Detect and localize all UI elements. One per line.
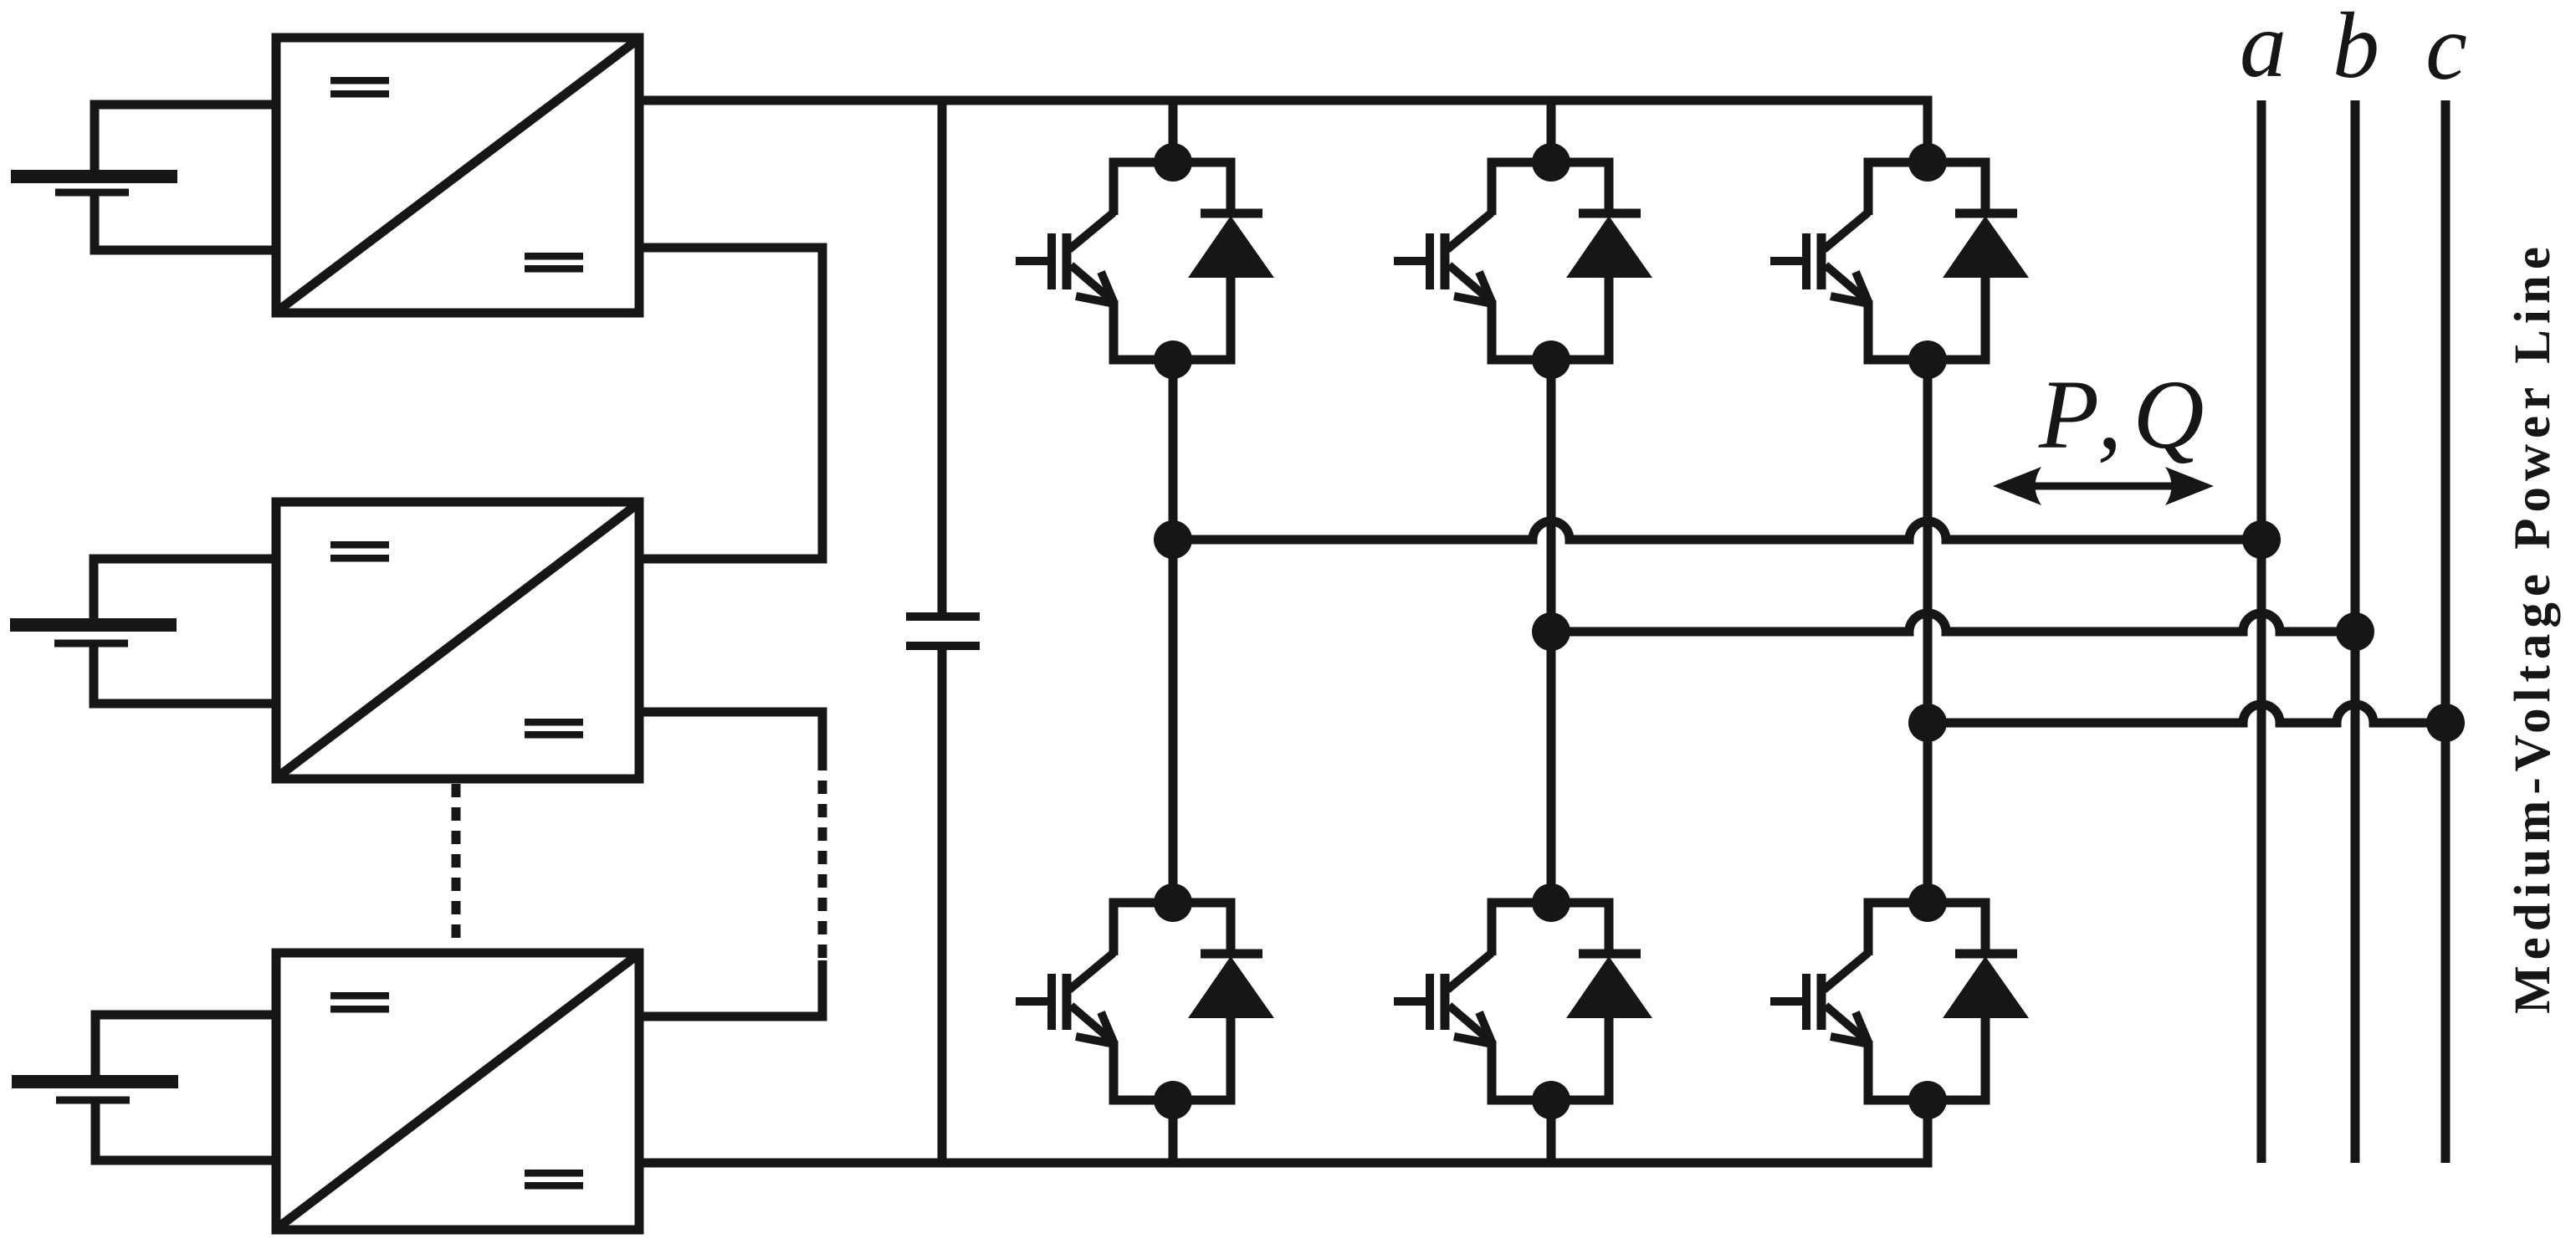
wire dashed continuation to U3 upper output — [639, 960, 822, 1021]
transistor Q5 (IGBT, leg 3 top) — [1770, 162, 1869, 360]
node phase line a junction — [2242, 520, 2281, 559]
label phase a — [2240, 0, 2287, 97]
wire leg 1 midpoint vertical — [1169, 360, 1178, 903]
diode D3 (anti-parallel, leg 2 top) — [1566, 162, 1652, 360]
wire U1 lower output to U2 upper output — [639, 243, 822, 564]
node leg 3 midpoint — [1908, 704, 1947, 742]
wire U2 lower output (to dashed continuation) — [639, 708, 822, 758]
wire phase b output (leg 2 midpoint to line b, hops over leg 3 and line a) — [1551, 613, 2355, 632]
U3 DC symbol (=) input side — [330, 992, 389, 1013]
dashed wire (repeated modules) between U2 and U3 — [818, 757, 827, 962]
wire cell top rail (leg 1 bottom cell) — [1109, 898, 1236, 908]
node leg 3 top cell upper — [1908, 143, 1947, 182]
svg-text:a: a — [2240, 0, 2287, 97]
node leg 3 bottom cell upper — [1908, 883, 1947, 922]
node leg 1 bottom cell lower — [1154, 1081, 1192, 1119]
node leg 2 top cell upper — [1532, 143, 1570, 182]
wire leg 1 bottom cell to DC- bus — [1169, 1100, 1178, 1163]
diode D5 (anti-parallel, leg 3 top) — [1943, 162, 2029, 360]
node leg 3 bottom cell lower — [1908, 1081, 1947, 1119]
node leg 3 top cell lower — [1908, 340, 1947, 379]
node leg 2 bottom cell upper — [1532, 883, 1570, 922]
node phase line c junction — [2426, 704, 2465, 742]
transistor Q6 (IGBT, leg 3 bottom) — [1770, 903, 1869, 1100]
wire cell top rail (leg 2 bottom cell) — [1488, 898, 1614, 908]
wire leg 3 bottom cell to DC- bus — [1923, 1100, 1933, 1163]
dashed line (repeated modules) between U2 and U3 boxes — [452, 784, 461, 945]
diode D2 (anti-parallel, leg 1 bottom) — [1188, 903, 1274, 1100]
dc-dc converter U1 (box with diagonal) — [276, 38, 639, 313]
node leg 2 midpoint — [1532, 612, 1570, 651]
transistor Q1 (IGBT, leg 1 top) — [1016, 162, 1114, 360]
svg-text:P,Q: P,Q — [2038, 360, 2215, 469]
node leg 1 top cell upper — [1154, 143, 1192, 182]
wire cell bottom rail (leg 2 top cell) — [1488, 356, 1614, 365]
U2 DC symbol (=) output side — [525, 719, 583, 739]
label Medium-Voltage Power Line — [2505, 241, 2561, 1014]
wire cell top rail (leg 2 top cell) — [1488, 158, 1614, 167]
wire leg 2 bottom cell to DC- bus — [1547, 1100, 1556, 1163]
wire medium-voltage line c — [2441, 100, 2451, 1163]
wire DC+ bus to leg 2 top cell — [1547, 100, 1556, 162]
node leg 2 bottom cell lower — [1532, 1081, 1570, 1119]
label phase c — [2425, 0, 2467, 100]
node leg 2 top cell lower — [1532, 340, 1570, 379]
capacitor C1 (DC-link) — [906, 612, 980, 650]
dc-dc converter U3 (box with diagonal) — [276, 953, 639, 1230]
wire cell bottom rail (leg 3 bottom cell) — [1864, 1096, 1990, 1105]
wire leg 2 midpoint vertical — [1547, 360, 1556, 903]
battery B1 — [11, 170, 177, 197]
diode D4 (anti-parallel, leg 2 bottom) — [1566, 903, 1652, 1100]
node leg 1 top cell lower — [1154, 340, 1192, 379]
label phase b — [2333, 0, 2379, 98]
battery B2 — [10, 618, 177, 648]
transistor Q4 (IGBT, leg 2 bottom) — [1394, 903, 1493, 1100]
wire battery B3 to converter U3 — [91, 1015, 277, 1160]
label P,Q (power flow) — [2038, 360, 2215, 469]
battery B3 — [12, 1075, 178, 1104]
wire battery B2 to converter U2 — [90, 559, 277, 704]
wire capacitor to DC- bus — [938, 650, 947, 1163]
wire cell bottom rail (leg 2 bottom cell) — [1488, 1096, 1614, 1105]
wire medium-voltage line a — [2257, 100, 2266, 1163]
wire medium-voltage line b — [2351, 100, 2360, 1163]
U1 DC symbol (=) output side — [525, 253, 583, 273]
svg-text:b: b — [2333, 0, 2379, 98]
double-headed arrow (P,Q power flow) — [1993, 467, 2214, 505]
diode D6 (anti-parallel, leg 3 bottom) — [1943, 903, 2029, 1100]
node leg 1 midpoint — [1154, 520, 1192, 559]
wire DC+ bus to leg 1 top cell — [1169, 100, 1178, 162]
wire phase c output (leg 3 midpoint to line c, hops over lines a,b) — [1928, 704, 2445, 723]
node phase line b junction — [2336, 612, 2374, 651]
wire battery B1 to converter U1 — [90, 105, 277, 250]
U2 DC symbol (=) input side — [330, 541, 389, 562]
transistor Q3 (IGBT, leg 2 top) — [1394, 162, 1493, 360]
wire cell top rail (leg 1 top cell) — [1109, 158, 1236, 167]
wire cell bottom rail (leg 1 top cell) — [1109, 356, 1236, 365]
wire cell top rail (leg 3 bottom cell) — [1864, 898, 1990, 908]
transistor Q2 (IGBT, leg 1 bottom) — [1016, 903, 1114, 1100]
wire cell top rail (leg 3 top cell) — [1864, 158, 1990, 167]
dc-dc converter U2 (box with diagonal) — [276, 502, 639, 779]
wire phase a output (leg 1 midpoint to line a, hops over legs 2,3) — [1173, 521, 2261, 540]
wire DC+ bus (top) — [639, 96, 1933, 105]
svg-text:c: c — [2425, 0, 2467, 100]
wire cell bottom rail (leg 1 bottom cell) — [1109, 1096, 1236, 1105]
diode D1 (anti-parallel, leg 1 top) — [1188, 162, 1274, 360]
U3 DC symbol (=) output side — [525, 1170, 583, 1190]
wire leg 3 midpoint vertical — [1923, 360, 1933, 903]
wire DC+ bus to leg 3 top cell — [1923, 100, 1933, 162]
svg-text:Medium-Voltage Power Line: Medium-Voltage Power Line — [2505, 241, 2561, 1014]
wire cell bottom rail (leg 3 top cell) — [1864, 356, 1990, 365]
node leg 1 bottom cell upper — [1154, 883, 1192, 922]
U1 DC symbol (=) input side — [330, 77, 389, 98]
wire DC- bus (bottom) — [639, 1159, 1933, 1168]
wire DC bus vertical to capacitor — [938, 100, 947, 612]
